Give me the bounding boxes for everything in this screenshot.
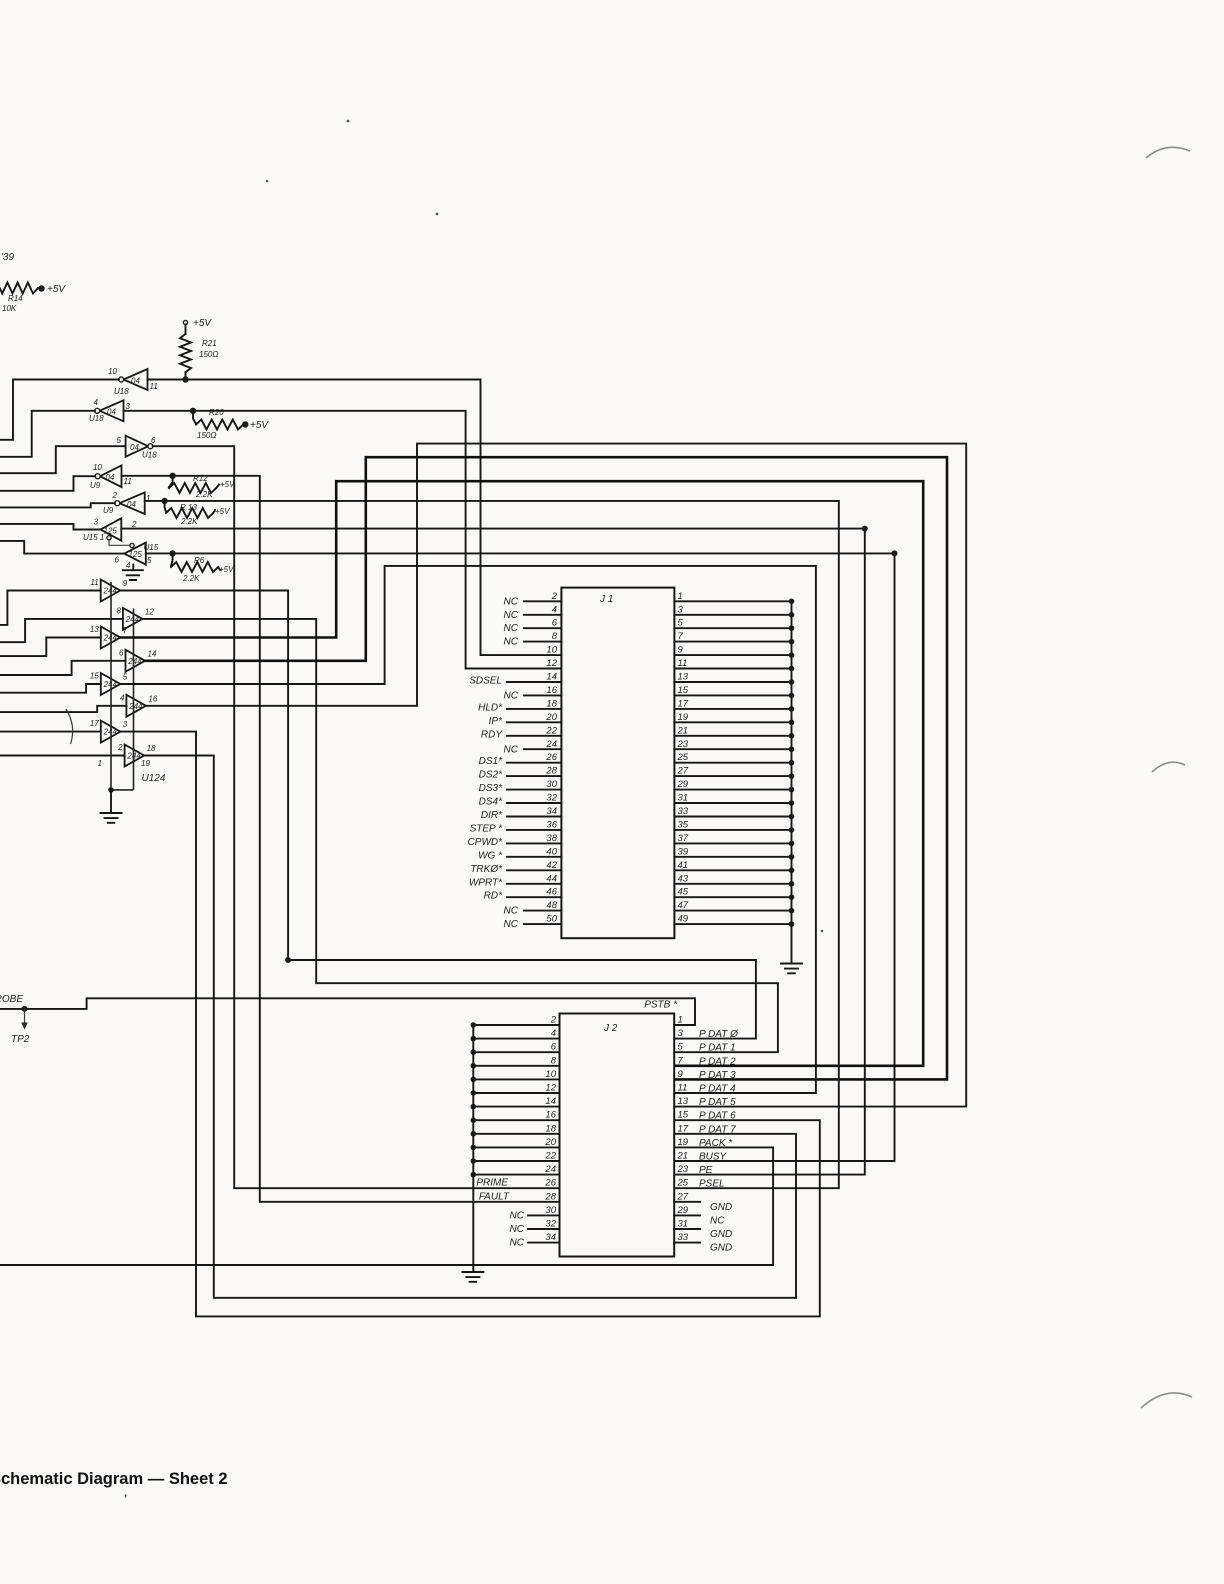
svg-text:’: ’ xyxy=(124,1493,127,1505)
svg-text:18: 18 xyxy=(545,1123,556,1134)
svg-text:J 1: J 1 xyxy=(599,594,613,605)
svg-text:47: 47 xyxy=(678,900,689,911)
wire J1 pin 24 NC stub xyxy=(524,748,561,750)
wire U15 pin6 output to left edge xyxy=(0,541,124,554)
svg-text:20: 20 xyxy=(545,712,557,723)
svg-text:14: 14 xyxy=(148,649,157,658)
wire J1 pin 34 DIR* stub xyxy=(507,816,561,818)
svg-text:NC: NC xyxy=(504,919,519,930)
wire J2 pin 10 to ground bus xyxy=(473,1078,559,1080)
svg-text:NC: NC xyxy=(504,637,519,648)
resistor R13 2.2K with +5V xyxy=(165,501,166,512)
junction marks on bus crossings xyxy=(464,564,467,567)
svg-text:17: 17 xyxy=(90,719,99,728)
svg-text:5: 5 xyxy=(147,556,152,565)
wire U18 pin3 input from J1 pin 12 xyxy=(124,411,562,669)
svg-text:NC: NC xyxy=(710,1215,725,1226)
junction R20 / U18 input xyxy=(190,408,196,414)
wire PSEL net: U9 pin1 input from J2 pin 25 xyxy=(145,501,839,1188)
svg-text:NC: NC xyxy=(510,1238,525,1249)
wire J1 pin 37 to ground bus xyxy=(674,842,791,844)
svg-text:04: 04 xyxy=(130,443,139,452)
wire J1 pin 26 DS1* stub xyxy=(507,762,561,764)
svg-text:21: 21 xyxy=(677,725,689,736)
svg-text:3: 3 xyxy=(94,518,99,527)
svg-text:Schematic Diagram — Sheet 2: Schematic Diagram — Sheet 2 xyxy=(0,1470,228,1488)
buffer U124 gate 3 pins 13/7 xyxy=(101,627,121,649)
svg-text:150Ω: 150Ω xyxy=(197,431,216,440)
svg-text:NC: NC xyxy=(510,1210,525,1221)
svg-text:04: 04 xyxy=(127,500,136,509)
svg-text:8: 8 xyxy=(551,1055,557,1066)
wire J2 pin 24 to ground bus xyxy=(473,1174,559,1176)
svg-text:+5V: +5V xyxy=(215,507,230,516)
ground at J1 bus xyxy=(781,964,802,974)
svg-text:P DAT 5: P DAT 5 xyxy=(699,1097,736,1108)
wire J1 pin 23 to ground bus xyxy=(674,748,791,750)
svg-text:19: 19 xyxy=(141,759,150,768)
svg-text:WG *: WG * xyxy=(478,850,503,861)
svg-text:DS1*: DS1* xyxy=(479,756,503,767)
svg-text:14: 14 xyxy=(546,672,557,683)
wire J2 pin 27 stub xyxy=(674,1201,700,1203)
svg-text:PACK *: PACK * xyxy=(699,1138,733,1149)
svg-text:13: 13 xyxy=(90,625,99,634)
test point TP2 arrow xyxy=(24,1009,26,1024)
svg-text:TRKØ*: TRKØ* xyxy=(470,864,503,875)
svg-text:49: 49 xyxy=(678,914,689,925)
svg-text:12: 12 xyxy=(546,658,557,669)
svg-text:+5V: +5V xyxy=(47,284,66,295)
wire J2 pin 4 to ground bus xyxy=(473,1038,559,1040)
svg-text:PSTB *: PSTB * xyxy=(644,1000,678,1011)
svg-text:WPRT*: WPRT* xyxy=(469,877,503,888)
svg-text:11: 11 xyxy=(124,477,132,486)
wire PSTB* net: STROBE from left edge to J2 pin 1 xyxy=(0,998,695,1025)
junction R6 / U15 input xyxy=(169,550,175,556)
svg-text:50: 50 xyxy=(546,914,557,925)
svg-text:31: 31 xyxy=(678,793,689,804)
svg-text:9: 9 xyxy=(678,645,684,656)
wire J1 pin 1 to ground bus xyxy=(674,600,791,602)
wire J1 pin 13 to ground bus xyxy=(674,681,791,683)
wire J1 pin 7 to ground bus xyxy=(674,641,791,643)
svg-text:5: 5 xyxy=(678,618,684,629)
connector J1 body xyxy=(561,588,674,939)
wire J2 pin 14 to ground bus xyxy=(473,1106,559,1108)
wire J2 pin 12 to ground bus xyxy=(473,1092,559,1094)
svg-text:04: 04 xyxy=(131,377,140,386)
svg-text:6: 6 xyxy=(552,618,558,629)
svg-text:244: 244 xyxy=(125,615,140,624)
wire PDAT4 net: U124 gate5 output to J2 pin 11 xyxy=(120,566,816,1093)
U124 enable line (left gates) xyxy=(110,582,112,790)
svg-text:13: 13 xyxy=(678,1096,689,1107)
junction PDAT0 corner xyxy=(285,957,291,963)
junction test point TP2 xyxy=(22,1006,28,1012)
svg-text:NC: NC xyxy=(504,623,519,634)
wire J2 pin 30 NC stub xyxy=(528,1214,560,1216)
svg-text:244: 244 xyxy=(128,702,143,711)
resistor R12 2.2K with +5V xyxy=(169,476,173,487)
svg-text:+5V: +5V xyxy=(219,565,234,574)
svg-text:10: 10 xyxy=(545,1069,556,1080)
+5V terminal for R21 xyxy=(183,320,187,324)
wire J1 pin 4 NC stub xyxy=(524,614,561,616)
svg-text:7: 7 xyxy=(678,631,684,642)
wire U18 pin4 output to left edge xyxy=(0,411,95,457)
buffer U124 gate 8 pins 2/18 xyxy=(125,745,145,767)
svg-text:40: 40 xyxy=(546,846,557,857)
wire J1 pin 9 to ground bus xyxy=(674,654,791,656)
wire J1 pin 50 NC stub xyxy=(524,923,561,925)
svg-text:+5V: +5V xyxy=(193,318,212,329)
svg-text:14: 14 xyxy=(545,1096,556,1107)
svg-text:46: 46 xyxy=(546,887,557,898)
connector J2 body xyxy=(560,1014,675,1257)
svg-text:IP*: IP* xyxy=(489,716,503,727)
svg-text:43: 43 xyxy=(678,873,689,884)
svg-text:4: 4 xyxy=(120,693,125,702)
svg-text:RD*: RD* xyxy=(484,891,503,902)
svg-text:10: 10 xyxy=(546,645,557,656)
wire U18 pin10 output to left edge xyxy=(0,380,119,440)
svg-text:U18: U18 xyxy=(114,387,129,396)
svg-text:+5V: +5V xyxy=(250,420,269,431)
junction R12 / U9 input xyxy=(169,473,175,479)
wire U124 gate 6 input from left edge xyxy=(0,706,126,712)
svg-text:NC: NC xyxy=(504,744,519,755)
wire J1 pin 41 to ground bus xyxy=(674,869,791,871)
wire J2 pin 20 to ground bus xyxy=(473,1146,559,1148)
wire J2 pin 31 stub xyxy=(674,1228,700,1230)
wire joining enable lines xyxy=(111,789,134,791)
svg-text:4: 4 xyxy=(94,398,99,407)
wire PDAT6 net: U124 gate7 output to J2 pin 15 xyxy=(120,732,820,1317)
stray arc mark xyxy=(66,709,73,744)
wire J1 pin 47 to ground bus xyxy=(674,910,791,912)
wire PACK* net: left edge to J2 pin 19 xyxy=(0,1147,773,1265)
svg-text:P DAT 7: P DAT 7 xyxy=(699,1124,736,1135)
svg-text:R6: R6 xyxy=(194,556,205,565)
wire J2 pin 8 to ground bus xyxy=(473,1065,559,1067)
svg-text:32: 32 xyxy=(546,793,557,804)
svg-text:DS2*: DS2* xyxy=(479,770,503,781)
svg-text:2.2K: 2.2K xyxy=(182,574,200,583)
svg-text:U15 1: U15 1 xyxy=(83,533,104,542)
svg-text:PE: PE xyxy=(699,1165,713,1176)
svg-text:33: 33 xyxy=(678,806,689,817)
wire J2 pin 32 NC stub xyxy=(528,1228,560,1230)
svg-text:R20: R20 xyxy=(209,408,224,417)
wire J1 pin 38 CPWD* stub xyxy=(507,842,561,844)
svg-text:4: 4 xyxy=(551,1028,556,1039)
svg-text:125: 125 xyxy=(104,527,118,536)
svg-text:2: 2 xyxy=(117,743,123,752)
wire J1 pin 43 to ground bus xyxy=(674,883,791,885)
svg-text:2.2K: 2.2K xyxy=(195,490,213,499)
wire J1 pin 30 DS3* stub xyxy=(507,789,561,791)
ground at J2 bus xyxy=(462,1272,483,1282)
svg-text:7: 7 xyxy=(123,626,128,635)
wire U18 pin5 input from left edge xyxy=(0,446,126,473)
svg-text:244: 244 xyxy=(103,728,118,737)
svg-text:28: 28 xyxy=(544,1191,556,1202)
svg-text:16: 16 xyxy=(148,694,157,703)
svg-text:P DAT Ø: P DAT Ø xyxy=(699,1029,739,1040)
svg-text:244: 244 xyxy=(103,587,118,596)
svg-text:150Ω: 150Ω xyxy=(199,350,218,359)
svg-text:3: 3 xyxy=(126,402,131,411)
buffer U15 pins 3/2/1 (74125) xyxy=(101,518,122,540)
wire BUSY net: U15 pin5 input from J2 pin 21 xyxy=(146,553,895,1161)
svg-text:R 13: R 13 xyxy=(180,503,197,512)
wire J2 pin 2 to ground bus xyxy=(473,1024,559,1026)
svg-text:19: 19 xyxy=(678,712,689,723)
svg-text:44: 44 xyxy=(546,873,557,884)
wire J1 pin 44 WPRT* stub xyxy=(507,883,561,885)
svg-text:04: 04 xyxy=(106,473,115,482)
wire J1 pin 39 to ground bus xyxy=(674,856,791,858)
svg-text:16: 16 xyxy=(546,685,557,696)
wire J1 pin 40 WG * stub xyxy=(507,856,561,858)
svg-text:DS3*: DS3* xyxy=(479,783,503,794)
svg-text:BUSY: BUSY xyxy=(699,1152,728,1163)
wire U124 gate 2 input from left edge xyxy=(0,619,123,642)
resistor R14 10K with +5V xyxy=(0,283,38,294)
svg-text:11: 11 xyxy=(90,578,98,587)
svg-text:NC: NC xyxy=(504,596,519,607)
svg-text:45: 45 xyxy=(678,887,689,898)
svg-text:8: 8 xyxy=(552,631,558,642)
svg-text:7: 7 xyxy=(678,1055,684,1066)
svg-text:39: 39 xyxy=(678,846,689,857)
wire J2 pin 22 to ground bus xyxy=(473,1160,559,1162)
wire J2 pin 29 stub xyxy=(674,1214,700,1216)
svg-text:34: 34 xyxy=(545,1232,556,1243)
wire J1 pin 16 NC stub xyxy=(524,694,561,696)
svg-text:31: 31 xyxy=(678,1219,689,1230)
wire U124 gate 4 input from left edge xyxy=(0,661,126,675)
wire J1 pin 18 HLD* stub xyxy=(507,708,561,710)
svg-text:15: 15 xyxy=(90,672,99,681)
resistor R21 150 ohm xyxy=(185,325,187,334)
svg-text:U15: U15 xyxy=(144,543,159,552)
svg-text:11: 11 xyxy=(678,1083,688,1094)
svg-text:25: 25 xyxy=(677,752,689,763)
svg-text:2.2K: 2.2K xyxy=(180,517,198,526)
svg-text:22: 22 xyxy=(545,725,557,736)
svg-text:2: 2 xyxy=(551,591,558,602)
buffer U124 gate 1 pins 11/9 xyxy=(101,580,121,602)
wire FAULT net: U9 pin11 input from J2 pin 28 xyxy=(122,476,560,1202)
svg-text:5: 5 xyxy=(117,436,122,445)
svg-text:5: 5 xyxy=(678,1042,684,1053)
wire U124 gate 1 input from left edge xyxy=(0,591,101,625)
resistor R6 2.2K with +5V xyxy=(171,553,173,566)
svg-text:8: 8 xyxy=(116,606,121,615)
wire J1 pin 32 DS4* stub xyxy=(507,802,561,804)
wire J1 pin 2 NC stub xyxy=(524,600,561,602)
inverter U18 pins 4/3 xyxy=(100,400,124,421)
wire J1 pin 15 to ground bus xyxy=(674,694,791,696)
svg-text:30: 30 xyxy=(546,779,557,790)
svg-text:GND: GND xyxy=(710,1229,732,1240)
svg-text:GND: GND xyxy=(710,1243,732,1254)
svg-text:244: 244 xyxy=(103,680,118,689)
svg-text:DIR*: DIR* xyxy=(481,810,503,821)
buffer U124 gate 2 pins 8/12 xyxy=(123,608,142,630)
svg-text:16: 16 xyxy=(545,1110,556,1121)
svg-text:STEP *: STEP * xyxy=(470,823,504,834)
buffer U124 gate 5 pins 15/5 xyxy=(101,673,121,695)
svg-text:30: 30 xyxy=(545,1205,556,1216)
svg-text:6: 6 xyxy=(115,556,120,565)
wire J1 pin 8 NC stub xyxy=(524,641,561,643)
svg-text:U18: U18 xyxy=(142,451,157,460)
wire J1 pin 3 to ground bus xyxy=(674,614,791,616)
svg-text:2: 2 xyxy=(112,491,118,500)
svg-text:33: 33 xyxy=(678,1232,689,1243)
inverter U18 pins 5/6 xyxy=(126,436,149,457)
wire PDAT2 net: U124 gate3 output to J2 pin 7 xyxy=(120,481,923,1066)
wire PDAT5 net: U124 gate6 output to J2 pin 13 xyxy=(146,444,966,1107)
svg-text:PRIME: PRIME xyxy=(476,1178,508,1189)
svg-text:35: 35 xyxy=(678,819,689,830)
svg-text:125: 125 xyxy=(129,550,143,559)
svg-text:4: 4 xyxy=(552,604,557,615)
inverter U9 pins 2/1 xyxy=(120,492,145,514)
svg-text:RDY: RDY xyxy=(481,729,503,740)
svg-text:R14: R14 xyxy=(8,294,23,303)
svg-text:10K: 10K xyxy=(2,304,17,313)
svg-text:27: 27 xyxy=(677,766,689,777)
svg-text:4: 4 xyxy=(126,561,131,570)
svg-text:23: 23 xyxy=(677,739,689,750)
svg-text:36: 36 xyxy=(546,819,557,830)
svg-text:1: 1 xyxy=(678,591,683,602)
wire J1 pin 5 to ground bus xyxy=(674,627,791,629)
wire PRIME net: U18 pin6 output to J2 pin 26 xyxy=(153,446,560,1188)
U124 enable line (right gates) xyxy=(133,609,135,790)
svg-text:U18: U18 xyxy=(89,414,104,423)
wire PDAT1 net: U124 gate2 output to J2 pin 5 xyxy=(142,619,778,1052)
svg-text:41: 41 xyxy=(678,860,689,871)
svg-text:NC: NC xyxy=(504,610,519,621)
svg-text:26: 26 xyxy=(545,752,557,763)
svg-text:FAULT: FAULT xyxy=(479,1192,510,1203)
enable bubble U15 pin4 xyxy=(130,543,134,547)
svg-text:11: 11 xyxy=(150,382,158,391)
svg-text:NC: NC xyxy=(504,690,519,701)
svg-text:P DAT 2: P DAT 2 xyxy=(699,1056,736,1067)
wire J1 pin 21 to ground bus xyxy=(674,735,791,737)
svg-text:P DAT 6: P DAT 6 xyxy=(699,1111,736,1122)
svg-text:15: 15 xyxy=(678,1110,689,1121)
svg-text:'39: '39 xyxy=(1,252,14,263)
svg-text:37: 37 xyxy=(678,833,689,844)
svg-text:DS4*: DS4* xyxy=(479,797,503,808)
svg-text:P DAT 3: P DAT 3 xyxy=(699,1070,736,1081)
inverter U18 pins 10/11 (top) xyxy=(124,369,148,390)
svg-text:24: 24 xyxy=(545,739,557,750)
svg-text:17: 17 xyxy=(678,1123,689,1134)
wire U9 pin10 output to left edge xyxy=(0,476,95,491)
svg-text:+5V: +5V xyxy=(220,480,235,489)
wire U9 pin2 output to left edge xyxy=(0,503,115,507)
svg-text:3: 3 xyxy=(678,1028,684,1039)
svg-text:6: 6 xyxy=(119,648,124,657)
svg-text:42: 42 xyxy=(546,860,557,871)
wire J2 pin 16 to ground bus xyxy=(473,1119,559,1121)
buffer U124 gate 4 pins 6/14 xyxy=(126,650,146,672)
enable bubble U15 pin1 xyxy=(107,536,111,540)
wire J1 pin 22 RDY stub xyxy=(507,735,561,737)
svg-text:28: 28 xyxy=(545,766,557,777)
svg-text:48: 48 xyxy=(546,900,557,911)
wire U124 gate 7 input from left edge xyxy=(0,731,101,733)
svg-text:29: 29 xyxy=(677,1205,689,1216)
svg-text:U124: U124 xyxy=(142,773,166,784)
wire J1 pin 35 to ground bus xyxy=(674,829,791,831)
resistor R20 150 ohm with +5V xyxy=(193,411,196,424)
wire J2 pin 34 NC stub xyxy=(528,1242,560,1244)
wire PDAT7 net: U124 gate8 output to J2 pin 17 xyxy=(144,756,796,1298)
wire J1 pin 33 to ground bus xyxy=(674,816,791,818)
svg-text:U9: U9 xyxy=(103,506,114,515)
wire U124 gate 5 input from left edge xyxy=(0,684,101,693)
wire J1 pin 19 to ground bus xyxy=(674,721,791,723)
svg-text:3: 3 xyxy=(678,604,684,615)
wire PDAT3 net: U124 gate4 output to J2 pin 9 xyxy=(145,457,947,1079)
wire PDAT0 net: U124 gate1 output to J2 pin 3 xyxy=(120,591,756,1039)
svg-text:24: 24 xyxy=(544,1164,556,1175)
wire J1 pin 31 to ground bus xyxy=(674,802,791,804)
svg-text:NC: NC xyxy=(510,1224,525,1235)
junction enable/ground xyxy=(108,787,114,793)
wire J1 pin 25 to ground bus xyxy=(674,762,791,764)
svg-text:11: 11 xyxy=(678,658,688,669)
svg-text:25: 25 xyxy=(677,1178,689,1189)
wire J1 pin 28 DS2* stub xyxy=(507,775,561,777)
wire PE net: U15 pin2 input from J2 pin 23 xyxy=(121,529,865,1175)
svg-text:21: 21 xyxy=(677,1151,689,1162)
svg-text:12: 12 xyxy=(545,1083,556,1094)
J2 ground bus xyxy=(472,1025,474,1272)
wire J1 pin 29 to ground bus xyxy=(674,789,791,791)
svg-text:27: 27 xyxy=(677,1191,689,1202)
svg-text:20: 20 xyxy=(544,1137,556,1148)
wire J2 pin 33 stub xyxy=(674,1242,700,1244)
svg-text:3: 3 xyxy=(123,720,128,729)
junction R13 / U9 input xyxy=(161,498,167,504)
ground at U15 pin4 xyxy=(132,565,134,571)
svg-text:GND: GND xyxy=(710,1202,732,1213)
wire J1 pin 17 to ground bus xyxy=(674,708,791,710)
buffer U124 gate 6 pins 4/16 xyxy=(126,695,145,717)
svg-text:P DAT 1: P DAT 1 xyxy=(699,1043,736,1054)
wire J1 pin 27 to ground bus xyxy=(674,775,791,777)
wire J1 pin 20 IP* stub xyxy=(507,721,561,723)
svg-text:STROBE: STROBE xyxy=(0,994,23,1005)
svg-text:6: 6 xyxy=(551,1042,557,1053)
svg-text:17: 17 xyxy=(678,698,689,709)
wire J2 pin 6 to ground bus xyxy=(473,1051,559,1053)
svg-text:6: 6 xyxy=(151,436,156,445)
svg-text:26: 26 xyxy=(544,1178,556,1189)
svg-text:19: 19 xyxy=(678,1137,689,1148)
buffer U15 pins 6/5/4 (74125) xyxy=(124,543,146,565)
